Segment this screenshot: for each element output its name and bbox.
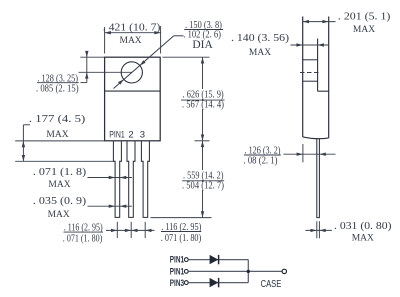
svg-text:. 085 (2. 15): . 085 (2. 15) [36,83,79,95]
svg-text:. 177 (4. 5): . 177 (4. 5) [29,113,86,125]
svg-text:. 421 (10. 7): . 421 (10. 7) [103,22,161,34]
wire row1 [188,259,248,261]
svg-text:2: 2 [128,129,133,140]
svg-text:MAX: MAX [48,210,70,220]
side view hole centerline (dashed) [300,72,321,74]
svg-text:PIN1: PIN1 [170,254,184,265]
svg-text:DIA: DIA [192,39,213,51]
wire row2 to CASE [188,270,282,272]
svg-text:3: 3 [140,129,145,140]
side view step [318,90,329,92]
terminal circle row 2 [184,270,188,274]
side view lead [317,139,320,218]
front view: tab/body division line [105,90,161,92]
diode on row 1 [210,255,219,264]
svg-text:. 201 (5. 1): . 201 (5. 1) [338,11,391,23]
svg-text:MAX: MAX [120,36,142,46]
lead 1 (front view) [113,141,121,217]
dimension .421(10.7) MAX overall width [104,27,106,54]
svg-text:. 567 (14. 4): . 567 (14. 4) [182,99,224,111]
wire bus vertical [247,260,249,283]
CASE terminal [282,269,286,273]
dimension .035(0.9) MAX lead thickness [88,205,132,207]
svg-text:CASE: CASE [261,279,282,290]
svg-text:MAX: MAX [249,48,271,58]
dimension .071(1.8) MAX lead width [88,177,132,179]
side view hole bottom edge [303,80,318,82]
dimension .031(0.80) MAX lead thickness [316,221,318,238]
junction dot [247,270,250,273]
dimension .150/.102 DIA mounting hole leader [114,36,174,89]
side view tab rear edge [317,39,319,92]
terminal circle row 3 [184,281,188,285]
svg-text:MAX: MAX [48,180,70,190]
side view bottom edge [303,137,329,139]
front view: package body outline [105,57,161,141]
wire row3 [188,282,248,284]
dimension .140(3.56) MAX body depth [291,44,329,46]
svg-text:MAX: MAX [352,234,374,244]
side view front face / extension [302,17,304,137]
lead 2 (front view) [127,141,135,217]
svg-text:. 071 (1. 80): . 071 (1. 80) [63,233,103,245]
terminal circle row 1 [184,258,188,262]
svg-text:. 08 (2. 1): . 08 (2. 1) [244,155,278,167]
front view: mounting hole [121,62,142,83]
diode on row 3 [210,278,219,287]
svg-text:. 071 (1. 80): . 071 (1. 80) [161,232,202,244]
svg-text:PIN3: PIN3 [170,277,184,288]
lead 3 (front view) [141,141,149,217]
dimension .128/.085 hole center from top [80,56,104,58]
side view rear face / extension [328,17,330,138]
svg-text:MAX: MAX [353,25,375,35]
svg-text:. 140 (3. 56): . 140 (3. 56) [231,32,289,44]
dimensions .626/.567 and .559/.504 right side vertical [163,56,210,58]
dimension .177(4.5) MAX shoulder length [15,140,104,142]
svg-text:PIN1: PIN1 [170,266,184,277]
svg-text:PIN1: PIN1 [109,129,124,140]
svg-text:MAX: MAX [46,130,68,140]
dimension .116/.071 lead pitch [116,222,118,238]
svg-text:. 116 (2. 95): . 116 (2. 95) [64,221,103,233]
svg-text:. 035 (0. 9): . 035 (0. 9) [33,195,87,207]
svg-text:. 504 (12. 7): . 504 (12. 7) [182,179,224,191]
svg-text:. 031 (0. 80): . 031 (0. 80) [334,220,392,232]
dimension .201(5.1) MAX overall depth [303,21,336,23]
side view hole top edge [303,59,318,61]
dimension .126/.08 lead position [302,144,304,162]
svg-text:. 071 (1. 8): . 071 (1. 8) [33,166,87,178]
